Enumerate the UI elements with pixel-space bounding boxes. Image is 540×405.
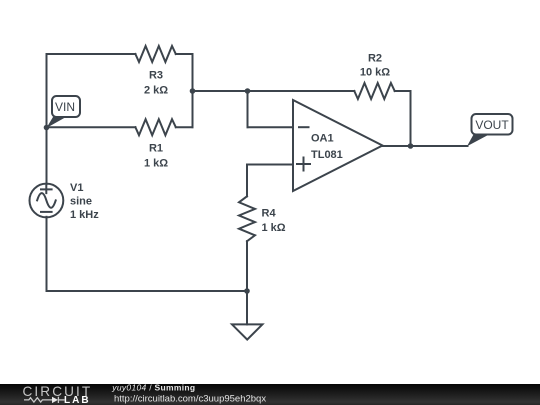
node dot VIN junction [44, 125, 50, 131]
V1 plus sign [41, 186, 52, 193]
svg-text:1 kΩ: 1 kΩ [262, 222, 286, 234]
node VIN pointer [46, 117, 66, 128]
svg-text:TL081: TL081 [311, 149, 343, 161]
op-amp plus symbol [297, 158, 310, 171]
svg-text:OA1: OA1 [311, 133, 334, 145]
wire op-amp output [383, 145, 468, 147]
wire VIN to R1 [47, 126, 136, 128]
resistor R4 [239, 196, 255, 241]
svg-text:10 kΩ: 10 kΩ [360, 67, 390, 79]
logo resistor-diode glyph [24, 397, 65, 403]
voltage source V1 circle [30, 184, 64, 218]
V1 minus sign [41, 211, 52, 213]
svg-text:R1: R1 [149, 143, 163, 155]
wire summing node down to inverting input [247, 91, 249, 127]
svg-text:http://circuitlab.com/c3uup95e: http://circuitlab.com/c3uup95eh2bqx [114, 394, 266, 405]
wire R2 right [395, 90, 411, 92]
svg-text:2 kΩ: 2 kΩ [144, 85, 168, 97]
svg-text:VIN: VIN [55, 100, 75, 114]
svg-text:sine: sine [70, 196, 92, 208]
node VIN flag [52, 96, 80, 117]
svg-text:LAB: LAB [64, 395, 91, 405]
wire down to R4 [246, 165, 248, 197]
wire summing node right to R2 [248, 90, 355, 92]
node dot ground junction [244, 288, 250, 294]
op-amp minus symbol [299, 126, 309, 128]
svg-text:V1: V1 [70, 182, 83, 194]
op-amp OA1 triangle [293, 100, 383, 191]
wire R4 bottom to ground junction [246, 241, 248, 291]
wire vertical x=192.5 joining R3 and R1 [192, 54, 194, 127]
wire ground junction down [246, 291, 248, 324]
wire to op-amp inverting input [248, 126, 294, 128]
node dot summing junction [245, 88, 251, 94]
wire node junction to summing node [193, 90, 248, 92]
svg-text:1 kHz: 1 kHz [70, 209, 99, 221]
svg-text:yuy0104 / Summing: yuy0104 / Summing [111, 383, 195, 393]
svg-text:R4: R4 [262, 208, 277, 220]
ground [232, 324, 262, 339]
node dot R3/R1 junction [190, 88, 196, 94]
wire V1 top [46, 128, 48, 185]
logo diode triangle [52, 397, 58, 403]
wire top-left vertical (VIN to R3 level) [46, 54, 48, 128]
wire bottom rail [47, 290, 248, 292]
svg-text:1 kΩ: 1 kΩ [144, 158, 168, 170]
node VOUT pointer [467, 135, 489, 147]
svg-text:R2: R2 [368, 53, 382, 65]
svg-text:R3: R3 [149, 70, 163, 82]
resistor R2 [354, 83, 394, 99]
wire R1 right [176, 126, 193, 128]
node dot output junction [408, 143, 414, 149]
wire V1 bottom to ground rail [46, 217, 48, 291]
V1 sine wave [37, 193, 56, 208]
wire R2 down to output [410, 91, 412, 146]
resistor R1 [135, 119, 175, 135]
wire top horizontal to R3 [47, 53, 136, 55]
wire op-amp noninverting input [247, 164, 293, 166]
node VOUT flag [472, 114, 513, 135]
wire R3 right [176, 53, 193, 55]
svg-text:VOUT: VOUT [475, 118, 509, 132]
resistor R3 [135, 46, 175, 62]
